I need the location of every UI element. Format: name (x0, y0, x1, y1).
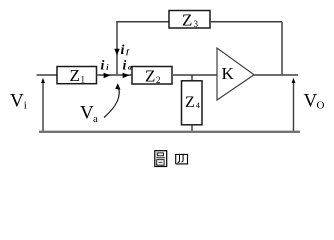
svg-text:Z: Z (145, 67, 155, 86)
resistor Z4 (182, 81, 203, 125)
ground rail (bottom) (39, 131, 300, 133)
svg-text:V: V (10, 90, 24, 111)
wire: top feedback left segment (116, 21, 169, 23)
svg-text:Z: Z (185, 94, 195, 111)
svg-text:i: i (121, 43, 125, 58)
svg-text:f: f (126, 47, 130, 56)
caption glyph 四 (four) (175, 154, 188, 164)
svg-text:V: V (304, 90, 318, 111)
wire: Z4 top stub (191, 75, 193, 81)
resistor Z2 (132, 67, 172, 85)
svg-text:1: 1 (81, 75, 86, 85)
wire: Z2 to amplifier (172, 74, 217, 76)
op-amp K triangle (217, 48, 254, 100)
svg-text:2: 2 (156, 75, 161, 85)
arrowhead current i_f pointing down (114, 49, 119, 56)
resistor Z3 (169, 11, 210, 29)
svg-text:a: a (93, 113, 98, 125)
svg-text:3: 3 (194, 19, 199, 29)
svg-text:i: i (101, 59, 105, 74)
node A vertical wire (feedback drop) (116, 22, 118, 75)
svg-text:i: i (123, 59, 127, 74)
wire: Z4 bottom stub (191, 125, 193, 131)
arrowhead current i_a (123, 73, 130, 79)
caption glyph 圖 (Figure) (155, 151, 167, 167)
svg-text:Z: Z (70, 66, 80, 85)
svg-text:Z: Z (182, 11, 192, 30)
wire: right feedback vertical (281, 22, 283, 75)
svg-text:K: K (222, 64, 235, 83)
svg-text:4: 4 (196, 100, 201, 110)
resistor Z1 (57, 67, 97, 84)
node Va pointer curved arrow (104, 87, 119, 118)
arrowhead current i_i (104, 73, 111, 79)
svg-text:i: i (106, 63, 109, 72)
wire: Z1 to Z2 through node (97, 74, 133, 76)
svg-text:i: i (24, 99, 27, 111)
svg-text:O: O (317, 100, 325, 112)
wire: output line (254, 74, 298, 76)
svg-text:V: V (80, 102, 94, 123)
wire: top feedback right segment (210, 21, 282, 23)
Vi arrow (42, 81, 44, 131)
wire: input line left (37, 74, 58, 76)
Vo arrow (293, 81, 295, 131)
